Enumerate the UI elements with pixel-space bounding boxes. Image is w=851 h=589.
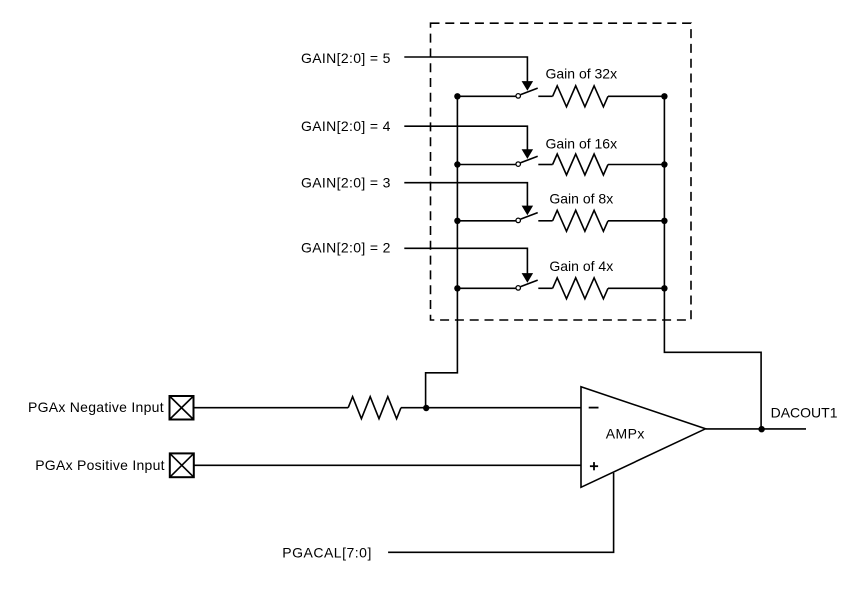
junction dot left rail branch 3 — [454, 218, 460, 224]
wire GAIN[2:0] = 4 select line — [404, 126, 527, 150]
switch S4 pivot and lever — [516, 156, 538, 166]
wire resistor to right rail — [608, 95, 664, 97]
resistor R4 (Gain of 4x) — [553, 278, 608, 299]
wire switch to resistor — [538, 220, 552, 222]
svg-text:PGAx Negative Input: PGAx Negative Input — [28, 399, 164, 415]
switch S2 control arrowhead — [522, 273, 534, 283]
wire branch 1 left segment — [457, 95, 515, 97]
wire right rail down to output node — [664, 96, 761, 429]
svg-text:AMPx: AMPx — [606, 426, 645, 442]
wire resistor to op-amp inverting input — [401, 407, 581, 409]
pin plus (non-inverting input marker) — [590, 462, 598, 470]
switch S3 pivot and lever — [516, 213, 538, 223]
wire left rail down to inverting-input node — [426, 96, 458, 408]
wire GAIN[2:0] = 5 select line — [404, 57, 527, 82]
wire op-amp output to DACOUT1 — [706, 428, 807, 430]
junction dot inverting-input node — [423, 405, 429, 411]
switch S3 control arrowhead — [522, 206, 534, 216]
junction dot left rail branch 2 — [454, 161, 460, 167]
junction dot right rail branch 1 — [661, 93, 667, 99]
svg-text:GAIN[2:0] = 3: GAIN[2:0] = 3 — [301, 175, 391, 191]
pin minus (inverting input marker) — [589, 407, 599, 409]
wire branch 2 left segment — [457, 164, 515, 166]
switch S5 pivot and lever — [516, 88, 538, 98]
resistor R32 (Gain of 32x) — [553, 86, 608, 107]
terminal box-X positive input — [170, 453, 194, 477]
svg-text:GAIN[2:0] = 5: GAIN[2:0] = 5 — [301, 50, 391, 66]
junction dot right rail branch 2 — [661, 161, 667, 167]
svg-text:PGAx Positive Input: PGAx Positive Input — [35, 457, 165, 473]
svg-text:DACOUT1: DACOUT1 — [771, 404, 838, 420]
junction dot right rail branch 3 — [661, 218, 667, 224]
wire switch to resistor — [538, 287, 552, 289]
wire negative input to resistor — [194, 407, 349, 409]
svg-text:Gain of 8x: Gain of 8x — [549, 190, 613, 206]
op-amp U1 AMPx triangle — [581, 387, 706, 488]
wire GAIN[2:0] = 3 select line — [404, 183, 527, 207]
svg-text:GAIN[2:0] = 4: GAIN[2:0] = 4 — [301, 118, 391, 134]
wire resistor to right rail — [608, 287, 664, 289]
wire PGACAL to op-amp calibration pin — [388, 473, 613, 553]
svg-text:Gain of 4x: Gain of 4x — [549, 258, 613, 274]
wire resistor to right rail — [608, 164, 664, 166]
switch S2 pivot and lever — [516, 280, 538, 290]
resistor R16 (Gain of 16x) — [553, 154, 608, 175]
svg-text:Gain of 32x: Gain of 32x — [545, 66, 617, 82]
resistor Rin (input resistor) — [348, 397, 401, 419]
wire switch to resistor — [538, 164, 552, 166]
resistor R8 (Gain of 8x) — [553, 210, 608, 231]
wire switch to resistor — [538, 95, 552, 97]
svg-text:Gain of 16x: Gain of 16x — [545, 136, 617, 152]
svg-text:PGACAL[7:0]: PGACAL[7:0] — [282, 544, 372, 560]
switch S5 control arrowhead — [522, 81, 534, 91]
terminal box-X negative input — [170, 396, 194, 420]
junction dot output node — [758, 426, 764, 432]
switch S4 control arrowhead — [522, 149, 534, 159]
wire branch 3 left segment — [457, 220, 515, 222]
wire GAIN[2:0] = 2 select line — [404, 248, 527, 273]
junction dot right rail branch 4 — [661, 285, 667, 291]
junction dot left rail branch 4 — [454, 285, 460, 291]
junction dot left rail branch 1 — [454, 93, 460, 99]
svg-text:GAIN[2:0] = 2: GAIN[2:0] = 2 — [301, 239, 391, 255]
wire positive input to op-amp — [194, 464, 581, 466]
dashed gain-network boundary box — [431, 23, 692, 320]
wire resistor to right rail — [608, 220, 664, 222]
wire branch 4 left segment — [457, 287, 515, 289]
